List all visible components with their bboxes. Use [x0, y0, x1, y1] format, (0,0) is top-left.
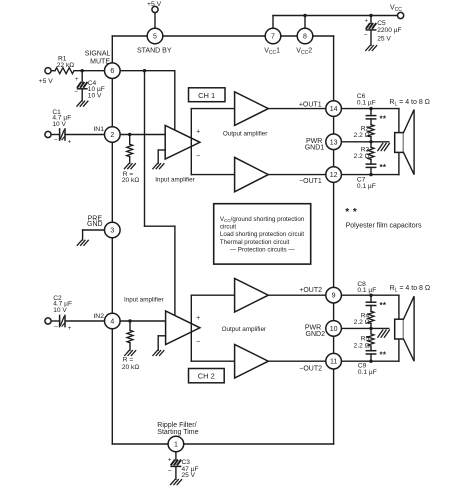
svg-text:Thermal protection circuit: Thermal protection circuit — [220, 239, 290, 246]
svg-text:SIGNAL: SIGNAL — [85, 51, 111, 58]
svg-text:**: ** — [380, 350, 387, 359]
svg-text:Input amplifier: Input amplifier — [155, 177, 195, 184]
svg-text:−OUT1: −OUT1 — [299, 178, 322, 185]
svg-text:**: ** — [380, 115, 387, 124]
svg-text:2.2 Ω: 2.2 Ω — [354, 132, 370, 139]
svg-text:2.2 Ω: 2.2 Ω — [354, 343, 370, 350]
svg-text:22 kΩ: 22 kΩ — [57, 62, 74, 69]
svg-text:0.1 µF: 0.1 µF — [357, 287, 376, 294]
svg-text:+: + — [68, 140, 72, 146]
svg-text:+: + — [75, 77, 79, 83]
svg-text:13: 13 — [330, 139, 338, 146]
svg-text:CH 1: CH 1 — [198, 91, 215, 100]
svg-text:4: 4 — [110, 319, 114, 326]
svg-text:6: 6 — [110, 68, 114, 75]
svg-text:Load shorting protection circu: Load shorting protection circuit — [220, 231, 305, 238]
svg-text:+: + — [168, 457, 172, 463]
svg-text:−: − — [74, 89, 78, 96]
svg-text:25 V: 25 V — [182, 472, 196, 479]
svg-text:25 V: 25 V — [377, 35, 391, 42]
svg-text:**: ** — [380, 163, 387, 172]
svg-text:Polyester film capacitors: Polyester film capacitors — [346, 223, 422, 230]
svg-text:2.2 Ω: 2.2 Ω — [354, 153, 370, 160]
svg-text:10 V: 10 V — [53, 307, 67, 314]
svg-text:Output amplifier: Output amplifier — [222, 326, 266, 333]
svg-text:0.1 µF: 0.1 µF — [357, 183, 376, 190]
svg-text:Output amplifier: Output amplifier — [223, 130, 267, 137]
svg-text:— Protection circuits —: — Protection circuits — — [230, 247, 295, 254]
svg-text:+: + — [196, 315, 200, 322]
svg-text:R =: R = — [123, 357, 134, 364]
svg-text:Input amplifier: Input amplifier — [124, 297, 164, 304]
svg-text:−OUT2: −OUT2 — [299, 366, 322, 373]
svg-text:−: − — [364, 32, 368, 39]
svg-text:VCC/ground shorting protection: VCC/ground shorting protection — [220, 216, 305, 223]
svg-text:**: ** — [380, 301, 387, 310]
svg-text:+: + — [365, 18, 369, 24]
svg-text:2200 µF: 2200 µF — [377, 27, 401, 34]
svg-text:+: + — [196, 128, 200, 135]
svg-text:−: − — [196, 339, 200, 346]
svg-text:0.1 µF: 0.1 µF — [358, 369, 377, 376]
svg-text:−: − — [168, 468, 172, 475]
svg-text:+5 V: +5 V — [147, 1, 162, 8]
svg-text:C5: C5 — [377, 20, 386, 27]
svg-text:Starting Time: Starting Time — [157, 429, 198, 436]
svg-text:2.2 Ω: 2.2 Ω — [354, 319, 370, 326]
svg-text:+OUT2: +OUT2 — [299, 287, 322, 294]
svg-text:10 V: 10 V — [52, 121, 66, 128]
svg-text:* *: * * — [345, 207, 357, 218]
svg-text:−: − — [54, 323, 58, 330]
svg-text:3: 3 — [110, 228, 114, 235]
svg-text:CH 2: CH 2 — [198, 372, 215, 381]
svg-text:12: 12 — [330, 172, 338, 179]
svg-text:20 kΩ: 20 kΩ — [122, 177, 139, 184]
svg-text:MUTE: MUTE — [90, 58, 110, 65]
svg-text:−: − — [196, 153, 200, 160]
svg-text:8: 8 — [303, 34, 307, 41]
svg-text:+5 V: +5 V — [39, 78, 54, 85]
svg-text:11: 11 — [330, 359, 337, 366]
svg-text:GND1: GND1 — [305, 144, 325, 151]
svg-text:IN2: IN2 — [93, 313, 104, 320]
svg-text:IN1: IN1 — [93, 126, 104, 133]
svg-text:1: 1 — [174, 442, 178, 449]
svg-text:5: 5 — [153, 34, 157, 41]
svg-text:0.1 µF: 0.1 µF — [357, 100, 376, 107]
svg-text:10: 10 — [330, 326, 338, 333]
svg-text:circuit: circuit — [220, 223, 236, 230]
svg-text:10 V: 10 V — [88, 92, 102, 99]
svg-text:7: 7 — [271, 34, 275, 41]
svg-text:20 kΩ: 20 kΩ — [122, 364, 139, 371]
svg-text:GND2: GND2 — [306, 331, 326, 338]
svg-text:2: 2 — [110, 132, 114, 139]
svg-text:+OUT1: +OUT1 — [299, 102, 322, 109]
svg-text:+: + — [68, 326, 72, 332]
svg-text:9: 9 — [332, 293, 336, 300]
svg-text:−: − — [54, 137, 58, 144]
svg-text:STAND BY: STAND BY — [137, 47, 172, 54]
svg-text:GND: GND — [87, 221, 103, 228]
svg-text:14: 14 — [330, 106, 338, 113]
